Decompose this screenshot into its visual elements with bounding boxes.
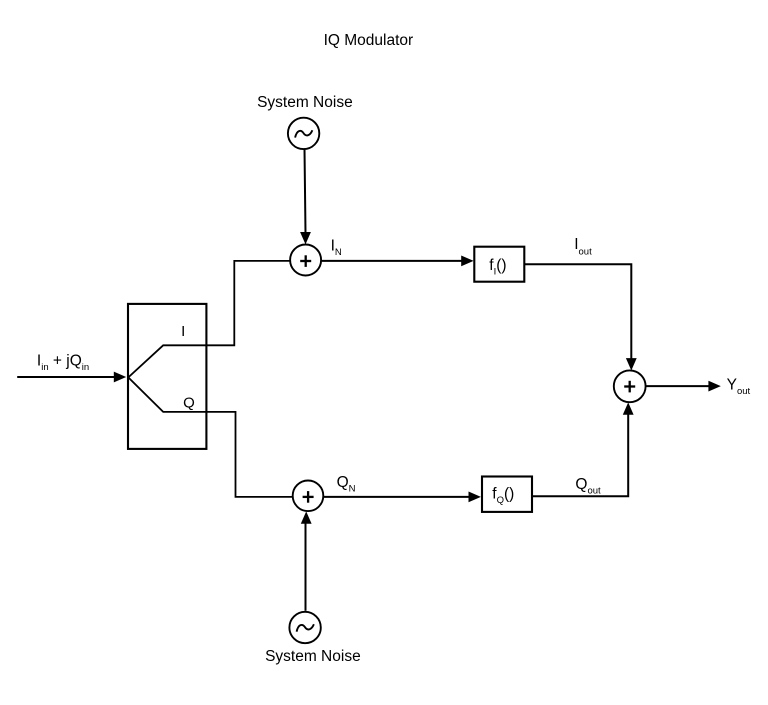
svg-text:Q: Q: [183, 394, 195, 411]
svg-text:System Noise: System Noise: [257, 94, 353, 111]
svg-text:System Noise: System Noise: [265, 648, 361, 665]
svg-text:IQ Modulator: IQ Modulator: [324, 32, 414, 49]
svg-text:I: I: [181, 323, 185, 340]
